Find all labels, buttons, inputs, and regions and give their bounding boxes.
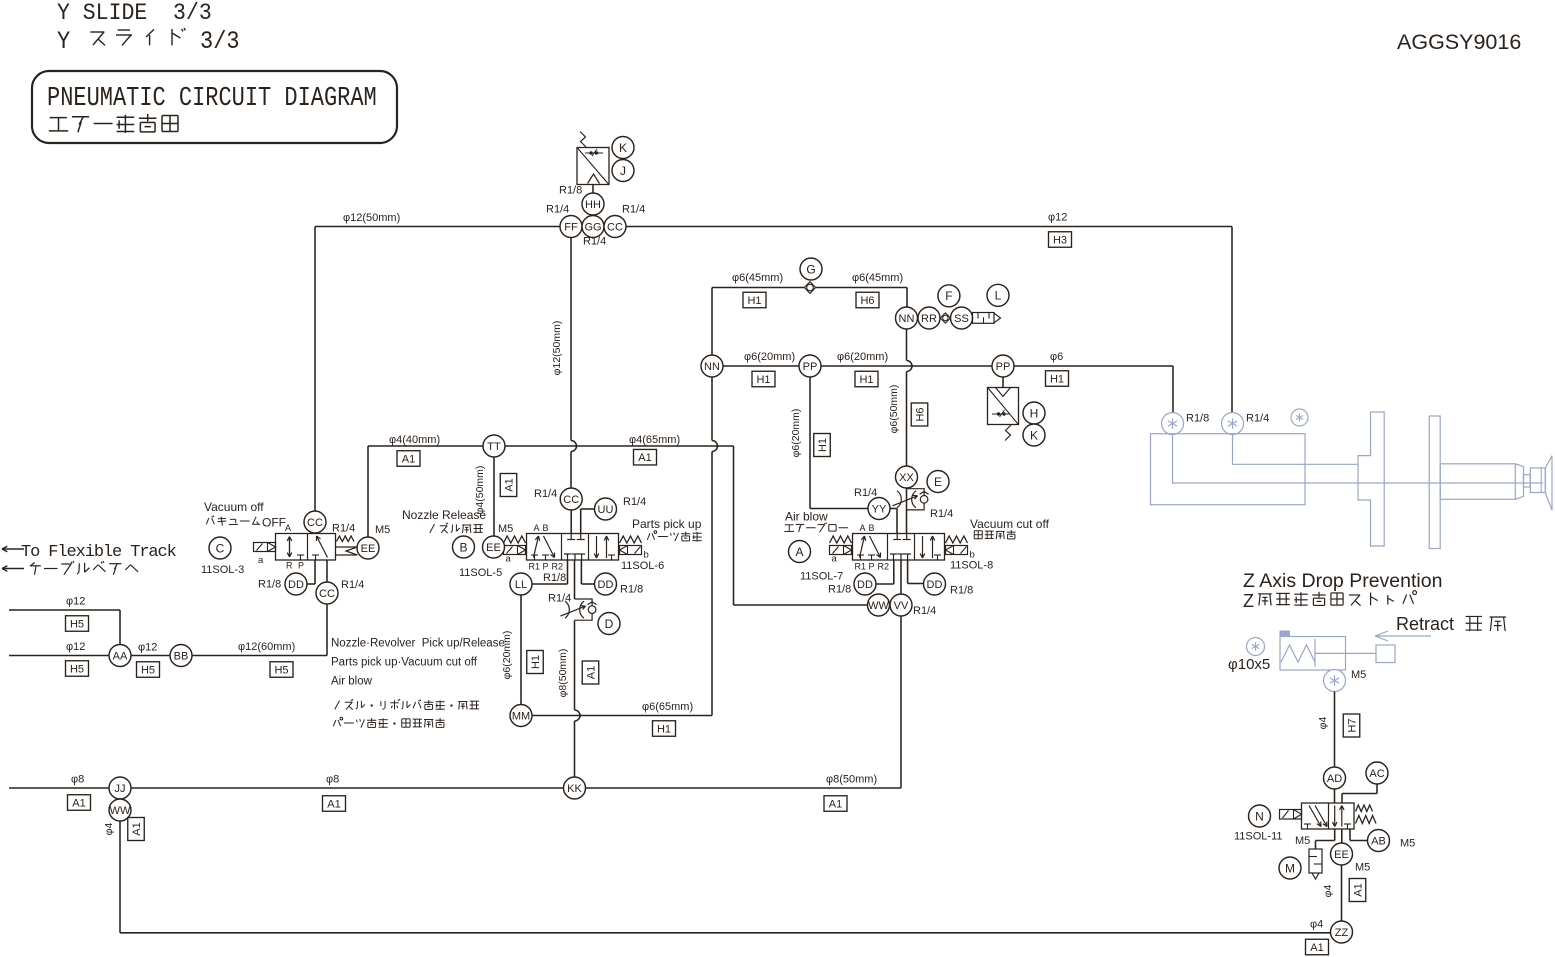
svg-text:R1: R1 <box>855 562 867 572</box>
wire CC drop below 11SOL-3 <box>326 560 328 582</box>
svg-text:DD: DD <box>288 579 304 591</box>
svg-text:WW: WW <box>868 600 889 612</box>
svg-text:A1: A1 <box>638 452 651 464</box>
valve 11SOL-3 left cell double arrow <box>289 537 291 557</box>
svg-text:A: A <box>795 545 803 559</box>
wire LL drop to MM <box>520 595 522 705</box>
svg-text:R1/4: R1/4 <box>623 496 646 508</box>
node YY <box>868 498 890 520</box>
svg-text:φ6(20mm): φ6(20mm) <box>837 351 888 363</box>
text vacuum break katakana <box>974 530 982 532</box>
node AC <box>1366 762 1388 784</box>
svg-text:OFF: OFF <box>262 516 286 530</box>
text parts pickup katakana <box>647 533 650 539</box>
check diamond between RR and SS <box>940 313 950 323</box>
svg-text:A1: A1 <box>503 478 515 491</box>
flow control with check valve E <box>907 489 925 510</box>
valve 11SOL-7/8 body 5/3 <box>853 534 945 561</box>
svg-text:WW: WW <box>110 805 131 817</box>
wire AC elbow to valve11 top <box>1376 784 1378 794</box>
svg-text:E: E <box>934 475 942 489</box>
svg-text:CC: CC <box>563 494 579 506</box>
node AA <box>109 645 131 667</box>
wire phi6(20mm) run <box>723 365 799 367</box>
svg-text:H1: H1 <box>1050 373 1064 385</box>
pressure switch PS1 electric contact <box>585 152 603 154</box>
valve 11SOL-3 spring right <box>337 536 355 542</box>
svg-text:A1: A1 <box>1352 883 1364 896</box>
node EE at valve11 <box>1331 843 1353 865</box>
pressure switch PS2 body <box>988 388 1019 425</box>
node A <box>789 541 811 563</box>
svg-text:BB: BB <box>174 650 189 662</box>
svg-text:PP: PP <box>803 361 818 373</box>
svg-text:H1: H1 <box>817 438 829 452</box>
svg-text:φ6(65mm): φ6(65mm) <box>642 701 693 713</box>
svg-text:R1/4: R1/4 <box>341 579 364 591</box>
svg-text:ZZ: ZZ <box>1335 927 1349 939</box>
svg-text:J: J <box>620 164 626 178</box>
svg-text:F: F <box>945 289 952 303</box>
svg-text:R1/4: R1/4 <box>930 508 953 520</box>
svg-text:M5: M5 <box>1355 862 1370 874</box>
svg-text:H5: H5 <box>70 618 84 630</box>
node MM <box>510 705 532 727</box>
title katakana air piping diagram <box>50 117 67 119</box>
svg-text:R1/4: R1/4 <box>332 523 355 535</box>
svg-text:A1: A1 <box>72 797 85 809</box>
node AB <box>1368 830 1390 852</box>
svg-text:R1/4: R1/4 <box>1246 413 1269 425</box>
svg-text:Parts pick up·Vacuum cut off: Parts pick up·Vacuum cut off <box>331 657 478 669</box>
wire DD elbow 11SOL-3 <box>307 583 315 585</box>
wire MM horizontal phi6(65mm) <box>532 715 712 717</box>
node EE left of valve5 <box>483 536 505 558</box>
wire UU elbow to valve5 top <box>580 509 582 534</box>
node TT <box>483 435 505 457</box>
valve 11SOL-11 solenoid <box>1280 810 1302 820</box>
svg-text:LL: LL <box>515 579 527 591</box>
svg-text:AGGSY9016: AGGSY9016 <box>1397 30 1521 54</box>
wire TT drop to EE valve5 <box>493 457 495 536</box>
pressure switch PS2 contact <box>992 413 1010 415</box>
svg-text:EE: EE <box>486 542 501 554</box>
svg-text:P: P <box>298 561 304 571</box>
svg-text:φ12(50mm): φ12(50mm) <box>551 321 563 376</box>
fitting star M5 stopper <box>1324 670 1346 692</box>
svg-text:φ6: φ6 <box>1050 351 1063 363</box>
wire CC to valve5 top <box>570 510 572 534</box>
svg-text:φ12(60mm): φ12(60mm) <box>238 641 295 653</box>
valve 11SOL-3 exhaust lines to EE <box>336 546 358 548</box>
node XX <box>896 466 918 488</box>
svg-text:M: M <box>1285 861 1295 875</box>
wire BB to 11SOL-3 riser phi12(60mm) <box>131 655 170 657</box>
svg-text:H5: H5 <box>70 663 84 675</box>
node NN exhaust <box>896 307 918 329</box>
text air blow katakana <box>785 524 794 526</box>
svg-text:A1: A1 <box>402 453 415 465</box>
svg-text:A: A <box>860 523 866 533</box>
wire NN mid drop <box>711 377 713 441</box>
node AD <box>1324 767 1346 789</box>
svg-text:Air blow: Air blow <box>785 510 828 524</box>
svg-text:DD: DD <box>857 579 873 591</box>
text To Flexible Track <box>2 548 24 550</box>
svg-text:φ4: φ4 <box>1317 717 1329 730</box>
node UU <box>595 498 617 520</box>
node F <box>938 285 960 307</box>
wire DD elbow valve5 bottom <box>580 560 582 584</box>
svg-text:TT: TT <box>487 441 501 453</box>
node JJ <box>109 777 131 799</box>
svg-text:P: P <box>869 562 875 572</box>
svg-text:A: A <box>534 523 540 533</box>
svg-text:EE: EE <box>1334 849 1349 861</box>
svg-text:B: B <box>543 523 549 533</box>
valve 11SOL-3 solenoid <box>254 543 276 552</box>
svg-text:AD: AD <box>1327 773 1342 785</box>
title Y SLIDE 3/3 <box>57 0 212 26</box>
svg-text:Air blow: Air blow <box>331 676 373 688</box>
svg-text:R1/4: R1/4 <box>854 487 877 499</box>
svg-text:Y: Y <box>57 28 70 57</box>
svg-text:φ4: φ4 <box>103 823 115 836</box>
fitting star R1/8 <box>1162 413 1184 435</box>
node FF <box>560 216 582 238</box>
wire phi4(40mm) horizontal <box>368 445 483 447</box>
svg-text:MM: MM <box>512 710 530 722</box>
svg-text:φ8: φ8 <box>326 774 339 786</box>
svg-text:H1: H1 <box>747 295 761 307</box>
node H <box>1023 402 1045 424</box>
node WW mid <box>868 594 890 616</box>
node DD below valve7 <box>854 573 876 595</box>
svg-text:11SOL-3: 11SOL-3 <box>201 564 244 576</box>
actuator manifold body blue <box>1151 434 1306 505</box>
stopper cylinder blue <box>1280 637 1346 671</box>
node K top <box>612 137 634 159</box>
svg-text:φ12: φ12 <box>66 596 85 608</box>
wire phi6(45mm) branch horizontal <box>712 287 907 289</box>
svg-text:φ8: φ8 <box>71 774 84 786</box>
svg-text:R2: R2 <box>552 562 564 572</box>
svg-text:YY: YY <box>872 503 887 515</box>
valve 11SOL-11 springs <box>1356 805 1373 812</box>
svg-text:HH: HH <box>585 199 601 211</box>
svg-text:a: a <box>506 554 512 565</box>
wire WW drop and bottom run to ZZ <box>119 821 121 933</box>
node CC above 11SOL-3 <box>304 511 326 533</box>
wire LL elbow valve5 bottom <box>567 560 569 584</box>
svg-text:CC: CC <box>307 517 323 529</box>
svg-text:Retract: Retract <box>1396 614 1454 634</box>
node PP right <box>992 355 1014 377</box>
svg-text:R1: R1 <box>529 562 541 572</box>
node DD at 11SOL-3 <box>285 573 307 595</box>
svg-text:R1/8: R1/8 <box>620 584 643 596</box>
svg-text:a: a <box>832 554 838 565</box>
svg-text:φ6(50mm): φ6(50mm) <box>888 385 900 434</box>
valve 11SOL-3 right cell diagonal arrow <box>317 536 328 558</box>
svg-text:φ4: φ4 <box>1322 885 1334 898</box>
svg-text:DD: DD <box>598 579 614 591</box>
svg-text:11SOL-5: 11SOL-5 <box>459 567 502 579</box>
svg-text:H1: H1 <box>756 374 770 386</box>
wire branch left drop to NN <box>711 288 713 356</box>
svg-text:R1/4: R1/4 <box>546 204 569 216</box>
node ZZ <box>1331 921 1353 943</box>
svg-text:To Flexible Track: To Flexible Track <box>21 543 177 562</box>
svg-text:H6: H6 <box>914 407 926 421</box>
svg-text:K: K <box>1030 428 1038 442</box>
node BB <box>170 645 192 667</box>
node K right <box>1023 424 1045 446</box>
svg-text:φ6(45mm): φ6(45mm) <box>732 272 783 284</box>
svg-text:M5: M5 <box>375 524 390 536</box>
svg-text:H1: H1 <box>859 374 873 386</box>
wire phi8 bottom run <box>9 787 109 789</box>
wire NN drop phi6(50mm) <box>906 329 908 361</box>
svg-text:11SOL-7: 11SOL-7 <box>800 571 843 583</box>
node DD below valve6 <box>595 573 617 595</box>
svg-text:φ12: φ12 <box>138 642 157 654</box>
svg-text:JJ: JJ <box>115 783 126 795</box>
svg-text:M5: M5 <box>1295 835 1310 847</box>
wire muffler elbow <box>1334 829 1336 841</box>
svg-text:R1/4: R1/4 <box>534 488 557 500</box>
text nozzle release katakana <box>430 524 435 533</box>
svg-text:A1: A1 <box>1310 942 1323 954</box>
svg-text:R1/4: R1/4 <box>913 605 936 617</box>
valve 11SOL-11 left cell crossed arrows <box>1309 806 1321 827</box>
wire center port down to flow control D <box>574 560 576 599</box>
svg-text:H: H <box>1030 406 1039 420</box>
wire corner down to WW <box>733 446 735 605</box>
valve 11SOL-3 body 3/2 <box>276 534 336 561</box>
svg-text:A1: A1 <box>131 822 143 835</box>
node CC below 11SOL-3 <box>316 582 338 604</box>
svg-text:R1/8: R1/8 <box>559 185 582 197</box>
actuator flange 1 blue <box>1358 412 1384 546</box>
svg-text:φ4: φ4 <box>1310 919 1323 931</box>
node E <box>927 471 949 493</box>
svg-text:φ6(20mm): φ6(20mm) <box>744 351 795 363</box>
pressure switch PS1 vent triangle <box>588 174 600 184</box>
node GG <box>582 216 604 238</box>
svg-text:11SOL-8: 11SOL-8 <box>950 560 993 572</box>
svg-text:R: R <box>286 561 293 571</box>
wire main phi12 supply horizontal <box>315 226 1232 228</box>
node VV <box>890 594 912 616</box>
wire AB elbow <box>1349 829 1351 841</box>
svg-text:D: D <box>605 617 614 631</box>
svg-text:b: b <box>644 550 649 561</box>
svg-text:H7: H7 <box>1346 718 1358 732</box>
svg-text:R1/4: R1/4 <box>548 593 571 605</box>
wire YY to valve7 top <box>890 508 897 510</box>
wire valve7 centre port to VV <box>900 560 902 595</box>
valve 11SOL-5/6 body 5/3 <box>527 534 619 561</box>
svg-text:UU: UU <box>598 504 614 516</box>
wire branch right drop to NN <box>906 288 908 308</box>
svg-text:H1: H1 <box>657 723 671 735</box>
svg-text:Z Axis Drop Prevention: Z Axis Drop Prevention <box>1243 570 1442 592</box>
svg-text:Nozzle Release: Nozzle Release <box>402 508 486 522</box>
svg-text:M5: M5 <box>1400 838 1415 850</box>
svg-text:Parts pick up: Parts pick up <box>632 517 702 531</box>
retract arrow blue <box>1375 635 1431 637</box>
node WW bottom <box>109 799 131 821</box>
svg-text:A1: A1 <box>327 798 340 810</box>
svg-text:K: K <box>619 141 627 155</box>
svg-text:φ8(50mm): φ8(50mm) <box>826 774 877 786</box>
svg-text:R2: R2 <box>878 562 890 572</box>
node KK <box>564 777 586 799</box>
node LL <box>510 573 532 595</box>
svg-text:FF: FF <box>564 221 578 233</box>
node C <box>209 537 231 559</box>
node HH <box>582 193 604 215</box>
svg-text:VV: VV <box>894 600 909 612</box>
svg-text:R1/8: R1/8 <box>543 572 566 584</box>
svg-text:Nozzle·Revolver Pick up/Relea: Nozzle·Revolver Pick up/Release <box>331 638 505 650</box>
svg-text:RR: RR <box>921 313 937 325</box>
wire EE to ZZ <box>1341 865 1343 921</box>
node M <box>1279 857 1301 879</box>
svg-text:11SOL-11: 11SOL-11 <box>1234 831 1283 843</box>
svg-text:3/3: 3/3 <box>200 28 240 57</box>
wire phi12 upper-left stub <box>9 609 120 611</box>
svg-text:PNEUMATIC CIRCUIT DIAGRAM: PNEUMATIC CIRCUIT DIAGRAM <box>47 84 377 114</box>
text katakana nozzle revolver line <box>335 701 340 710</box>
svg-text:H3: H3 <box>1053 234 1067 246</box>
svg-text:C: C <box>216 541 225 555</box>
svg-text:H5: H5 <box>141 664 155 676</box>
node PP mid <box>799 355 821 377</box>
svg-text:H6: H6 <box>860 295 874 307</box>
svg-text:PP: PP <box>996 361 1011 373</box>
svg-text:EE: EE <box>361 543 376 555</box>
wire phi4(65mm) continuation <box>505 445 734 447</box>
actuator flange 2 blue <box>1429 416 1440 549</box>
wire PS1 stem <box>592 185 594 194</box>
svg-text:M5: M5 <box>498 523 513 535</box>
node L <box>987 284 1009 306</box>
svg-text:M5: M5 <box>1351 669 1366 681</box>
svg-text:φ4(40mm): φ4(40mm) <box>389 434 440 446</box>
svg-text:φ12: φ12 <box>1048 212 1067 224</box>
svg-text:NN: NN <box>899 313 915 325</box>
node B <box>453 536 475 558</box>
svg-text:L: L <box>995 289 1002 303</box>
svg-text:SS: SS <box>954 313 969 325</box>
wire phi4 drop to AD <box>1334 692 1336 768</box>
node DD below valve8 <box>924 573 946 595</box>
svg-text:Z: Z <box>1243 591 1254 611</box>
flow control with check valve D <box>575 599 593 620</box>
muffler M <box>1309 849 1322 873</box>
title Y (katakana) 3/3 <box>57 28 70 57</box>
pressure switch PS1 lightning lead <box>580 132 586 148</box>
node G <box>800 258 822 280</box>
text katakana parts vacuum line <box>333 720 336 726</box>
wire PP right to pressure switch PS2 <box>1002 377 1004 388</box>
svg-text:AB: AB <box>1371 835 1386 847</box>
node EE right of 11SOL-3 <box>357 537 379 559</box>
svg-text:G: G <box>806 262 815 276</box>
silencer muffler <box>973 313 995 324</box>
svg-text:H1: H1 <box>530 655 542 669</box>
svg-text:φ12: φ12 <box>66 641 85 653</box>
valve 11SOL-11 right cell arrows <box>1334 806 1336 827</box>
wire valve8 right port to DD <box>907 560 909 584</box>
actuator end flare blue <box>1545 456 1552 511</box>
title box PNEUMATIC CIRCUIT DIAGRAM <box>32 71 397 143</box>
wire PP mid drop phi6(20mm) <box>809 377 811 509</box>
svg-text:P: P <box>543 562 549 572</box>
gauge port node at G <box>804 282 815 294</box>
wire main left drop to valve 11SOL-3 <box>314 227 316 512</box>
svg-text:φ10x5: φ10x5 <box>1228 656 1270 673</box>
svg-text:KK: KK <box>567 783 582 795</box>
wire DD elbow valve7 bottom left <box>893 560 895 584</box>
node D <box>598 613 620 635</box>
fitting star R1/4 <box>1222 413 1244 435</box>
fitting star phi10x5 <box>1247 638 1265 656</box>
wire AD to valve11 top <box>1334 789 1336 803</box>
wire phi12 lower-left into AA <box>9 655 109 657</box>
svg-text:N: N <box>1255 809 1264 823</box>
svg-text:DD: DD <box>927 579 943 591</box>
wire phi8(50mm) drop to KK <box>574 621 576 711</box>
svg-text:φ8(50mm): φ8(50mm) <box>557 649 569 698</box>
svg-text:AA: AA <box>113 650 128 662</box>
svg-text:R1/8: R1/8 <box>828 584 851 596</box>
wire XX flow control to valve7 top <box>906 488 908 534</box>
svg-text:φ6(20mm): φ6(20mm) <box>790 409 802 458</box>
wire FF drop phi12(50mm) vertical <box>570 238 572 441</box>
svg-text:R1/4: R1/4 <box>622 204 645 216</box>
fitting star spare <box>1291 409 1308 426</box>
svg-text:R1/8: R1/8 <box>1186 413 1209 425</box>
svg-text:Y SLIDE 3/3: Y SLIDE 3/3 <box>57 0 212 26</box>
node SS <box>951 307 973 329</box>
actuator internal pipe 2 blue <box>1233 435 1359 465</box>
svg-text:A1: A1 <box>585 666 597 679</box>
svg-text:GG: GG <box>584 221 601 233</box>
node CC above valve5 <box>560 488 582 510</box>
svg-text:A1: A1 <box>829 798 842 810</box>
svg-text:AC: AC <box>1369 768 1384 780</box>
svg-text:R1/8: R1/8 <box>258 579 281 591</box>
svg-text:Vacuum off: Vacuum off <box>204 500 264 514</box>
svg-text:φ6(45mm): φ6(45mm) <box>852 272 903 284</box>
node CC on main line <box>604 216 626 238</box>
svg-text:Vacuum cut off: Vacuum cut off <box>970 517 1050 531</box>
wire EE below valve11 <box>1341 829 1343 843</box>
node J top <box>612 160 634 182</box>
svg-text:a: a <box>258 555 264 566</box>
svg-text:H5: H5 <box>274 664 288 676</box>
svg-text:11SOL-6: 11SOL-6 <box>621 560 664 572</box>
svg-text:NN: NN <box>704 361 720 373</box>
svg-text:CC: CC <box>319 588 335 600</box>
actuator internal pipe 1 blue <box>1173 435 1544 483</box>
valve 11SOL-11 body 5/2 <box>1302 803 1355 829</box>
text vacuum OFF katakana <box>206 518 209 524</box>
svg-text:φ4(65mm): φ4(65mm) <box>629 434 680 446</box>
